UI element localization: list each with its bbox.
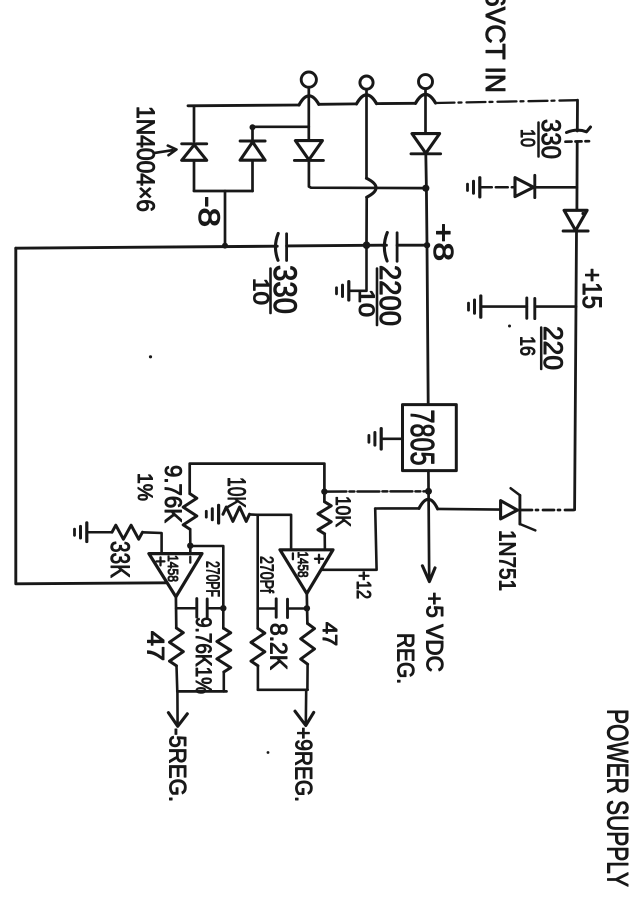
U1B - input mark (292, 553, 294, 559)
label C3 value 330 (536, 119, 566, 159)
wire main bus right segment (+8 net) (397, 244, 427, 247)
svg-text:16: 16 (516, 336, 539, 356)
wire D7 cathode to right rail (dashed) (521, 509, 574, 512)
label R3 47 (142, 631, 169, 661)
label U1A 1458 (164, 555, 181, 582)
svg-text:270Pf: 270Pf (257, 556, 277, 594)
junction dot at 10K2 top tap (321, 488, 327, 494)
junction dot CT drop on main bus (363, 241, 371, 249)
label 7805 (404, 410, 441, 466)
junction dot C6 at U1B output line (304, 605, 310, 611)
capacitor C5 270PF leads and plates (176, 599, 223, 618)
label 6VCT IN (480, 0, 511, 93)
ground symbol at C4 (469, 296, 481, 317)
wire D1 cathode to AC bus (193, 106, 196, 141)
capacitor C2 2200/10 (left plate curved) (384, 233, 397, 262)
fraction bar C4 (540, 328, 543, 370)
resistor R6 9.76K 1% feedback (217, 628, 231, 672)
U1A + input mark (157, 557, 165, 565)
label R7 8.2K (265, 623, 292, 670)
label C3 voltage 10 (516, 129, 538, 147)
stray scan speck 2 (581, 212, 584, 215)
resistor R5 10K (318, 502, 331, 534)
wire AC bus from D1 cathode to right rail (hops over terminal drops) (188, 94, 436, 105)
wire -8 tap from diode bus down to main bus (224, 191, 227, 245)
zener D7 1N751 (pointing right) (501, 488, 536, 530)
label C4 value 220 (538, 326, 568, 370)
wire terminal A drop to D3 anode (307, 87, 310, 140)
wire C4 to ground (481, 305, 527, 308)
junction dot 270PF right lead (220, 605, 226, 611)
wire D2 anode down to -8 bottom bus (251, 161, 254, 191)
wire right rail top segment (576, 100, 579, 131)
capacitor C3 330/10 series (curved top plate, dashed bottom plate) (566, 127, 591, 142)
svg-text:10: 10 (516, 129, 538, 147)
wire stub feedback node to U1A - input (189, 546, 192, 554)
capacitor C4 220/16 (527, 298, 535, 319)
resistor R3 47 (170, 628, 184, 666)
wire C4 to right rail (535, 305, 576, 308)
fraction bar C3 (537, 123, 540, 157)
wire D2 cathode up and right to node under terminal A (253, 127, 309, 141)
label REG. (392, 633, 419, 684)
svg-text:220: 220 (538, 326, 568, 370)
svg-text:POWER SUPPLY: POWER SUPPLY (601, 709, 634, 887)
fraction bar C2 (376, 269, 379, 326)
label C4 voltage 16 (516, 336, 539, 356)
transformer terminal CT (center tap) (360, 76, 373, 89)
wire R8 bottom to output node (306, 664, 309, 690)
pointer arrow from 1N4004 label to D1 (156, 146, 177, 156)
label -5REG. (164, 728, 191, 802)
wire main bus left segment (-8 net) (16, 246, 277, 248)
label -8 node (192, 196, 225, 227)
wire +9REG arrow stem (304, 690, 307, 724)
wire R1 bottom to U1A inverting input (189, 529, 192, 545)
svg-text:+9REG.: +9REG. (290, 727, 317, 802)
ground symbol at 10K R4 (206, 505, 218, 523)
label +8 node (428, 223, 459, 261)
diode D6 (pointing down on right rail) (563, 210, 588, 231)
resistor R4 10K (223, 507, 250, 521)
svg-text:47: 47 (142, 631, 169, 661)
wire R4 to U1B - input (250, 514, 292, 549)
diode D4 (1N4004, pointing down) (411, 134, 441, 154)
junction dot -8 tap on main bus (222, 243, 228, 249)
op-amp U1A 1458 (pointing down) (149, 554, 202, 597)
wire U1A output down to R3 47 (175, 597, 178, 628)
svg-text:6VCT IN: 6VCT IN (480, 0, 511, 93)
wire +8 rail from D4 cathode down to 7805 input (426, 154, 428, 404)
junction dot 7805 output node (425, 488, 432, 495)
svg-text:-5REG.: -5REG. (164, 728, 191, 802)
label R5 10K (331, 496, 354, 527)
wire 7805 output down to +5 arrow (427, 471, 431, 579)
wire AC bus dash-dot segment to top-right corner (436, 100, 578, 103)
svg-text:33K: 33K (105, 541, 135, 578)
wire D1 anode down to -8 bottom bus (193, 162, 196, 191)
label 1N751 (495, 530, 521, 591)
label C2 value 2200 (373, 265, 406, 326)
resistor R1 9.76K 1% (183, 494, 197, 530)
svg-text:+12: +12 (352, 571, 374, 599)
arrowhead +5VDC REG output (422, 566, 435, 582)
svg-text:9.76K1%: 9.76K1% (191, 617, 216, 694)
wire -5REG arrow stem (176, 691, 179, 725)
label R8 47 (318, 622, 340, 646)
ground symbol at 7805 (369, 429, 381, 449)
wire bottom bus joining D1 and D2 anodes (194, 190, 253, 193)
wire right rail from C3 to D6 (576, 142, 579, 211)
svg-text:1458: 1458 (164, 555, 181, 582)
label R2 33K (105, 541, 135, 578)
ground symbol feeding D5 (468, 178, 480, 197)
wire ground to 33K (87, 531, 112, 534)
svg-text:1N751: 1N751 (495, 530, 521, 591)
svg-text:270PF: 270PF (203, 561, 223, 597)
wire right rail from D6 down to 1N751 corner (575, 231, 577, 510)
U1B + input mark (315, 555, 323, 563)
wire D5 cathode to right rail (535, 186, 577, 189)
wire R7 bottom to output node (257, 666, 260, 690)
transformer terminal A (top winding end) (301, 72, 316, 87)
svg-text:10K: 10K (331, 496, 354, 527)
junction dot U1A feedback node (187, 543, 193, 549)
stray scan speck 4 (508, 325, 511, 328)
ground symbol at CT branch (337, 282, 349, 300)
wire terminal CT drop with hop over D3-D4 wire (367, 89, 377, 245)
regulator U2 7805 box (403, 405, 457, 471)
junction dot D4 cathode meets D3 wire (422, 185, 429, 192)
diode D3 (1N4004, pointing down) (294, 141, 323, 161)
label C6 270PF (257, 556, 277, 594)
op-amp U1B 1458 (pointing down) (280, 550, 333, 594)
wire +9REG output node bus (258, 688, 308, 691)
wire -5REG output node bus (177, 690, 226, 693)
resistor R7 8.2K feedback (251, 628, 265, 665)
capacitor C1 330/10 (left plate curved) (275, 234, 286, 261)
wire 7805 ground lead (381, 437, 402, 440)
label C2 voltage 10 (354, 289, 379, 317)
diode D2 (1N4004, pointing up) (240, 141, 265, 160)
U1A - input mark (189, 557, 191, 563)
svg-text:+5 VDC: +5 VDC (421, 592, 448, 672)
diode D5 (pointing right) (515, 175, 535, 197)
svg-text:7805: 7805 (404, 410, 441, 466)
svg-text:10K: 10K (222, 477, 250, 508)
label R6 9.76K1% (191, 617, 216, 694)
svg-text:1N4004×6: 1N4004×6 (131, 106, 159, 212)
label R1 9.76K (159, 465, 186, 523)
stray scan speck 3 (267, 751, 270, 754)
junction dot +8 rail at main bus (424, 242, 430, 248)
svg-text:1458: 1458 (294, 552, 311, 578)
svg-text:REG.: REG. (392, 633, 419, 684)
label C5 270PF (203, 561, 223, 597)
transformer terminal B (bottom winding end) (419, 75, 433, 89)
svg-text:10: 10 (249, 278, 274, 305)
label 1N4004x6 (131, 106, 159, 212)
ground symbol at 33K (75, 523, 87, 542)
wire 33K to U1A + input (143, 532, 162, 553)
label R4 10K (222, 477, 250, 508)
label +5 VDC (421, 592, 448, 672)
resistor R2 33K (112, 525, 143, 539)
svg-text:47: 47 (318, 622, 340, 646)
wire terminal B drop to D4 anode (424, 89, 427, 134)
wire left rail from main bus down and right to op-amp U1A (16, 248, 166, 584)
label +15 node (577, 268, 607, 309)
wire U1B output down to R8 47 (305, 594, 308, 624)
stray scan speck 1 (149, 355, 152, 358)
wire D3 cathode down and right to +8 rail (309, 160, 426, 188)
svg-text:1%: 1% (133, 473, 156, 501)
wire feedback node right and down to R6 (190, 546, 223, 628)
label R1 1% (133, 473, 156, 501)
wire R5 bottom to U1B + input (323, 534, 326, 550)
wire +5 node to 10K divider (324, 490, 428, 493)
wire feedback top loop from 9.76K to 10K2 (190, 464, 325, 502)
label U1B 1458 (294, 552, 311, 578)
wire R6 bottom to output node (223, 672, 226, 691)
arrowhead -5REG (168, 713, 187, 727)
diode D1 (1N4004, pointing up) (182, 144, 207, 161)
label C1 voltage 10 (249, 278, 274, 305)
label +12 node (352, 571, 374, 599)
label C1 value 330 (267, 265, 303, 314)
wire R3 bottom to output node (175, 666, 178, 692)
svg-text:-8: -8 (192, 196, 225, 227)
wire U1B feedback drop to R7/C6 (256, 515, 259, 629)
label +9REG. (290, 727, 317, 802)
junction dot at D2 cathode corner (250, 124, 256, 130)
svg-text:+15: +15 (577, 268, 607, 309)
svg-text:8.2K: 8.2K (265, 623, 292, 670)
wire CT ground branch (350, 245, 367, 291)
wire main bus middle segment (CT/ground net) (287, 244, 387, 248)
wire 1N751 row from +12 corner with hop over +5 line (375, 499, 500, 509)
resistor R8 47 (301, 624, 315, 665)
svg-text:330: 330 (536, 119, 566, 159)
svg-text:10: 10 (354, 289, 379, 317)
title POWER SUPPLY (601, 709, 634, 887)
svg-text:+8: +8 (428, 223, 459, 261)
wire +12 branch down to op-amp U1B + input (322, 509, 377, 570)
svg-text:9.76K: 9.76K (159, 465, 186, 523)
wire ground to D5 anode (480, 186, 515, 189)
fraction bar C1 (269, 269, 272, 314)
arrowhead +9REG (295, 711, 314, 725)
capacitor C6 270PF leads and plates (258, 599, 307, 618)
